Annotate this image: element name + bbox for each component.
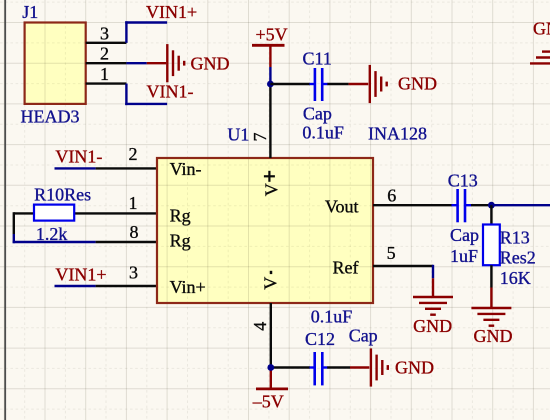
wire net VIN1- horizontal [125,103,167,105]
svg-text:U1: U1 [227,125,249,145]
svg-text:C13: C13 [448,170,478,190]
svg-text:7: 7 [250,133,270,142]
ground GND4 stem [490,288,492,309]
svg-text:2: 2 [100,44,109,64]
svg-text:Vin-: Vin- [170,159,202,179]
svg-text:Ref: Ref [333,257,359,277]
op-amp U1 body [157,158,373,303]
wire U1 pin 7 [269,84,271,158]
svg-text:1: 1 [129,193,138,213]
svg-text:Res2: Res2 [500,248,536,268]
ground GND5 symbol [370,348,372,386]
capacitor C12 plates [310,366,315,368]
wire U1 pin 4 [270,303,272,368]
wire R13 to GND4 [490,265,492,287]
svg-text:Cap: Cap [349,326,378,346]
svg-text:Rg: Rg [170,206,191,226]
wire U1 pin 8 [96,241,157,243]
ground GND2 stem [349,83,369,85]
ground GND2 symbol [369,65,371,103]
wire R10 loop vertical blue [13,234,15,243]
ground GND1 stem [147,62,166,64]
svg-text:GND: GND [413,316,452,336]
svg-text:–5V: –5V [252,392,284,412]
svg-text:0.1uF: 0.1uF [302,123,344,143]
power -5V bar [256,387,288,390]
svg-text:GND: GND [533,18,550,38]
power -5V stem [270,368,272,389]
svg-text:16K: 16K [500,268,531,288]
J1 pin 1 wire [86,82,127,84]
svg-text:0.1uF: 0.1uF [311,306,353,326]
wire U1 pin 5 [373,265,433,267]
junction node [267,364,274,371]
svg-text:J1: J1 [22,2,38,22]
power +5V stem [269,45,271,67]
wire node to right edge [491,204,550,206]
ground GND5 stem [350,366,369,368]
wire net VIN1+ vertical [125,21,127,43]
wire U1 pin 2 [96,167,157,169]
svg-text:Cap: Cap [450,225,479,245]
connector J1 body (HEAD3) [25,23,86,104]
svg-text:3: 3 [129,263,138,283]
svg-text:GND: GND [474,326,513,346]
svg-text:V: V [260,277,280,290]
svg-text:VIN1-: VIN1- [55,147,102,167]
resistor R10 body [34,205,74,221]
wire node to R13 [490,205,492,224]
wire to C12 [271,366,310,368]
svg-text:1.2k: 1.2k [36,224,68,244]
svg-text:R13: R13 [500,227,530,247]
svg-text:4: 4 [250,322,270,331]
wire U1 pin 1 [74,212,157,214]
svg-text:GND: GND [398,74,437,94]
svg-text:5: 5 [387,243,396,263]
junction node [488,202,495,209]
capacitor C13 plates [452,204,458,206]
svg-text:8: 8 [130,222,139,242]
svg-text:R10Res: R10Res [34,185,91,205]
wire pin5 blue segment [432,265,434,279]
wire to C11 [270,83,310,85]
ground GND4 symbol [471,307,511,309]
wire U1 pin 6 [373,204,452,206]
wire VIN1+ blue segment [55,285,96,287]
svg-text:HEAD3: HEAD3 [21,106,80,126]
ground GND3 stem [432,278,434,297]
ground GND1 symbol [166,44,168,82]
svg-text:V: V [261,183,281,196]
svg-text:VIN1+: VIN1+ [55,265,106,285]
svg-text:Rg: Rg [170,231,191,251]
wire R10 loop vertical [13,212,15,234]
svg-text:3: 3 [100,23,109,43]
svg-text:Vout: Vout [325,196,359,216]
wire net VIN1- vertical [125,84,127,106]
wire R10 loop bottom blue [13,241,96,243]
J1 pin 3 wire [86,42,127,44]
svg-text:C11: C11 [303,49,332,69]
ground GND6 symbol (clipped) [542,50,550,52]
wire +5V blue segment [269,67,271,84]
capacitor C11 plates [310,83,315,85]
wire to GND1 [126,62,146,64]
wire net VIN1+ horizontal [125,21,167,23]
J1 pin 2 wire [86,62,127,64]
svg-text:2: 2 [129,144,138,164]
power +5V bar [252,44,285,47]
svg-text:INA128: INA128 [368,124,427,144]
svg-text:+5V: +5V [256,24,288,44]
svg-text:Vin+: Vin+ [170,277,206,297]
wire U1 pin 3 [96,285,157,287]
ground GND3 symbol [413,296,453,298]
wire C11 to GND2 [327,83,348,85]
junction node [267,81,274,88]
svg-text:6: 6 [387,186,396,206]
svg-text:GND: GND [191,53,230,73]
wire R10 left [14,212,34,214]
wire VIN1- blue segment [55,167,96,169]
resistor R13 body [483,225,500,266]
wire C13 to node [471,204,491,206]
svg-text:VIN1-: VIN1- [147,82,194,102]
wire C12 to GND5 [327,366,350,368]
svg-text:GND: GND [395,357,434,377]
svg-text:1: 1 [100,64,109,84]
svg-text:C12: C12 [305,329,335,349]
svg-text:1uF: 1uF [450,246,478,266]
svg-text:Cap: Cap [303,104,332,124]
svg-text:VIN1+: VIN1+ [146,2,197,22]
